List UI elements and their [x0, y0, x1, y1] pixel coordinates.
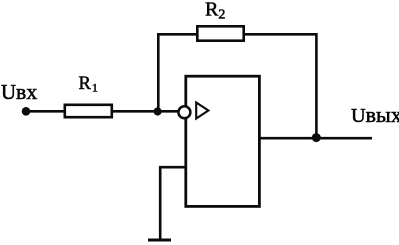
node A junction dot (inverting input / R1 / R2) [154, 107, 162, 115]
ground [148, 239, 171, 242]
wire non-inverting input to ground [160, 167, 184, 238]
wire feedback top horizontal through R2 [157, 33, 317, 36]
op-amp U1 amplifier triangle symbol [196, 103, 208, 119]
svg-text:Uвх: Uвх [1, 80, 37, 104]
label Uвых [351, 102, 399, 127]
node B junction dot (output / feedback) [312, 133, 321, 142]
wire input Uвх to R1 and on to inverting input node [26, 110, 178, 113]
label R1 [79, 74, 98, 95]
resistor R1 [65, 105, 112, 117]
op-amp U1 inverting input circle [178, 106, 190, 118]
wire feedback right vertical (R2 down to output node B) [315, 33, 318, 138]
label R2 [205, 0, 225, 22]
wire feedback left vertical (node A to R2) [157, 34, 160, 112]
wire output from op-amp to Uвых terminal [259, 137, 372, 140]
resistor R2 [197, 26, 243, 40]
label Uвх [1, 80, 37, 104]
node input terminal dot [22, 107, 31, 116]
op-amp U1 body [186, 76, 260, 206]
svg-text:Uвых: Uвых [351, 102, 399, 127]
